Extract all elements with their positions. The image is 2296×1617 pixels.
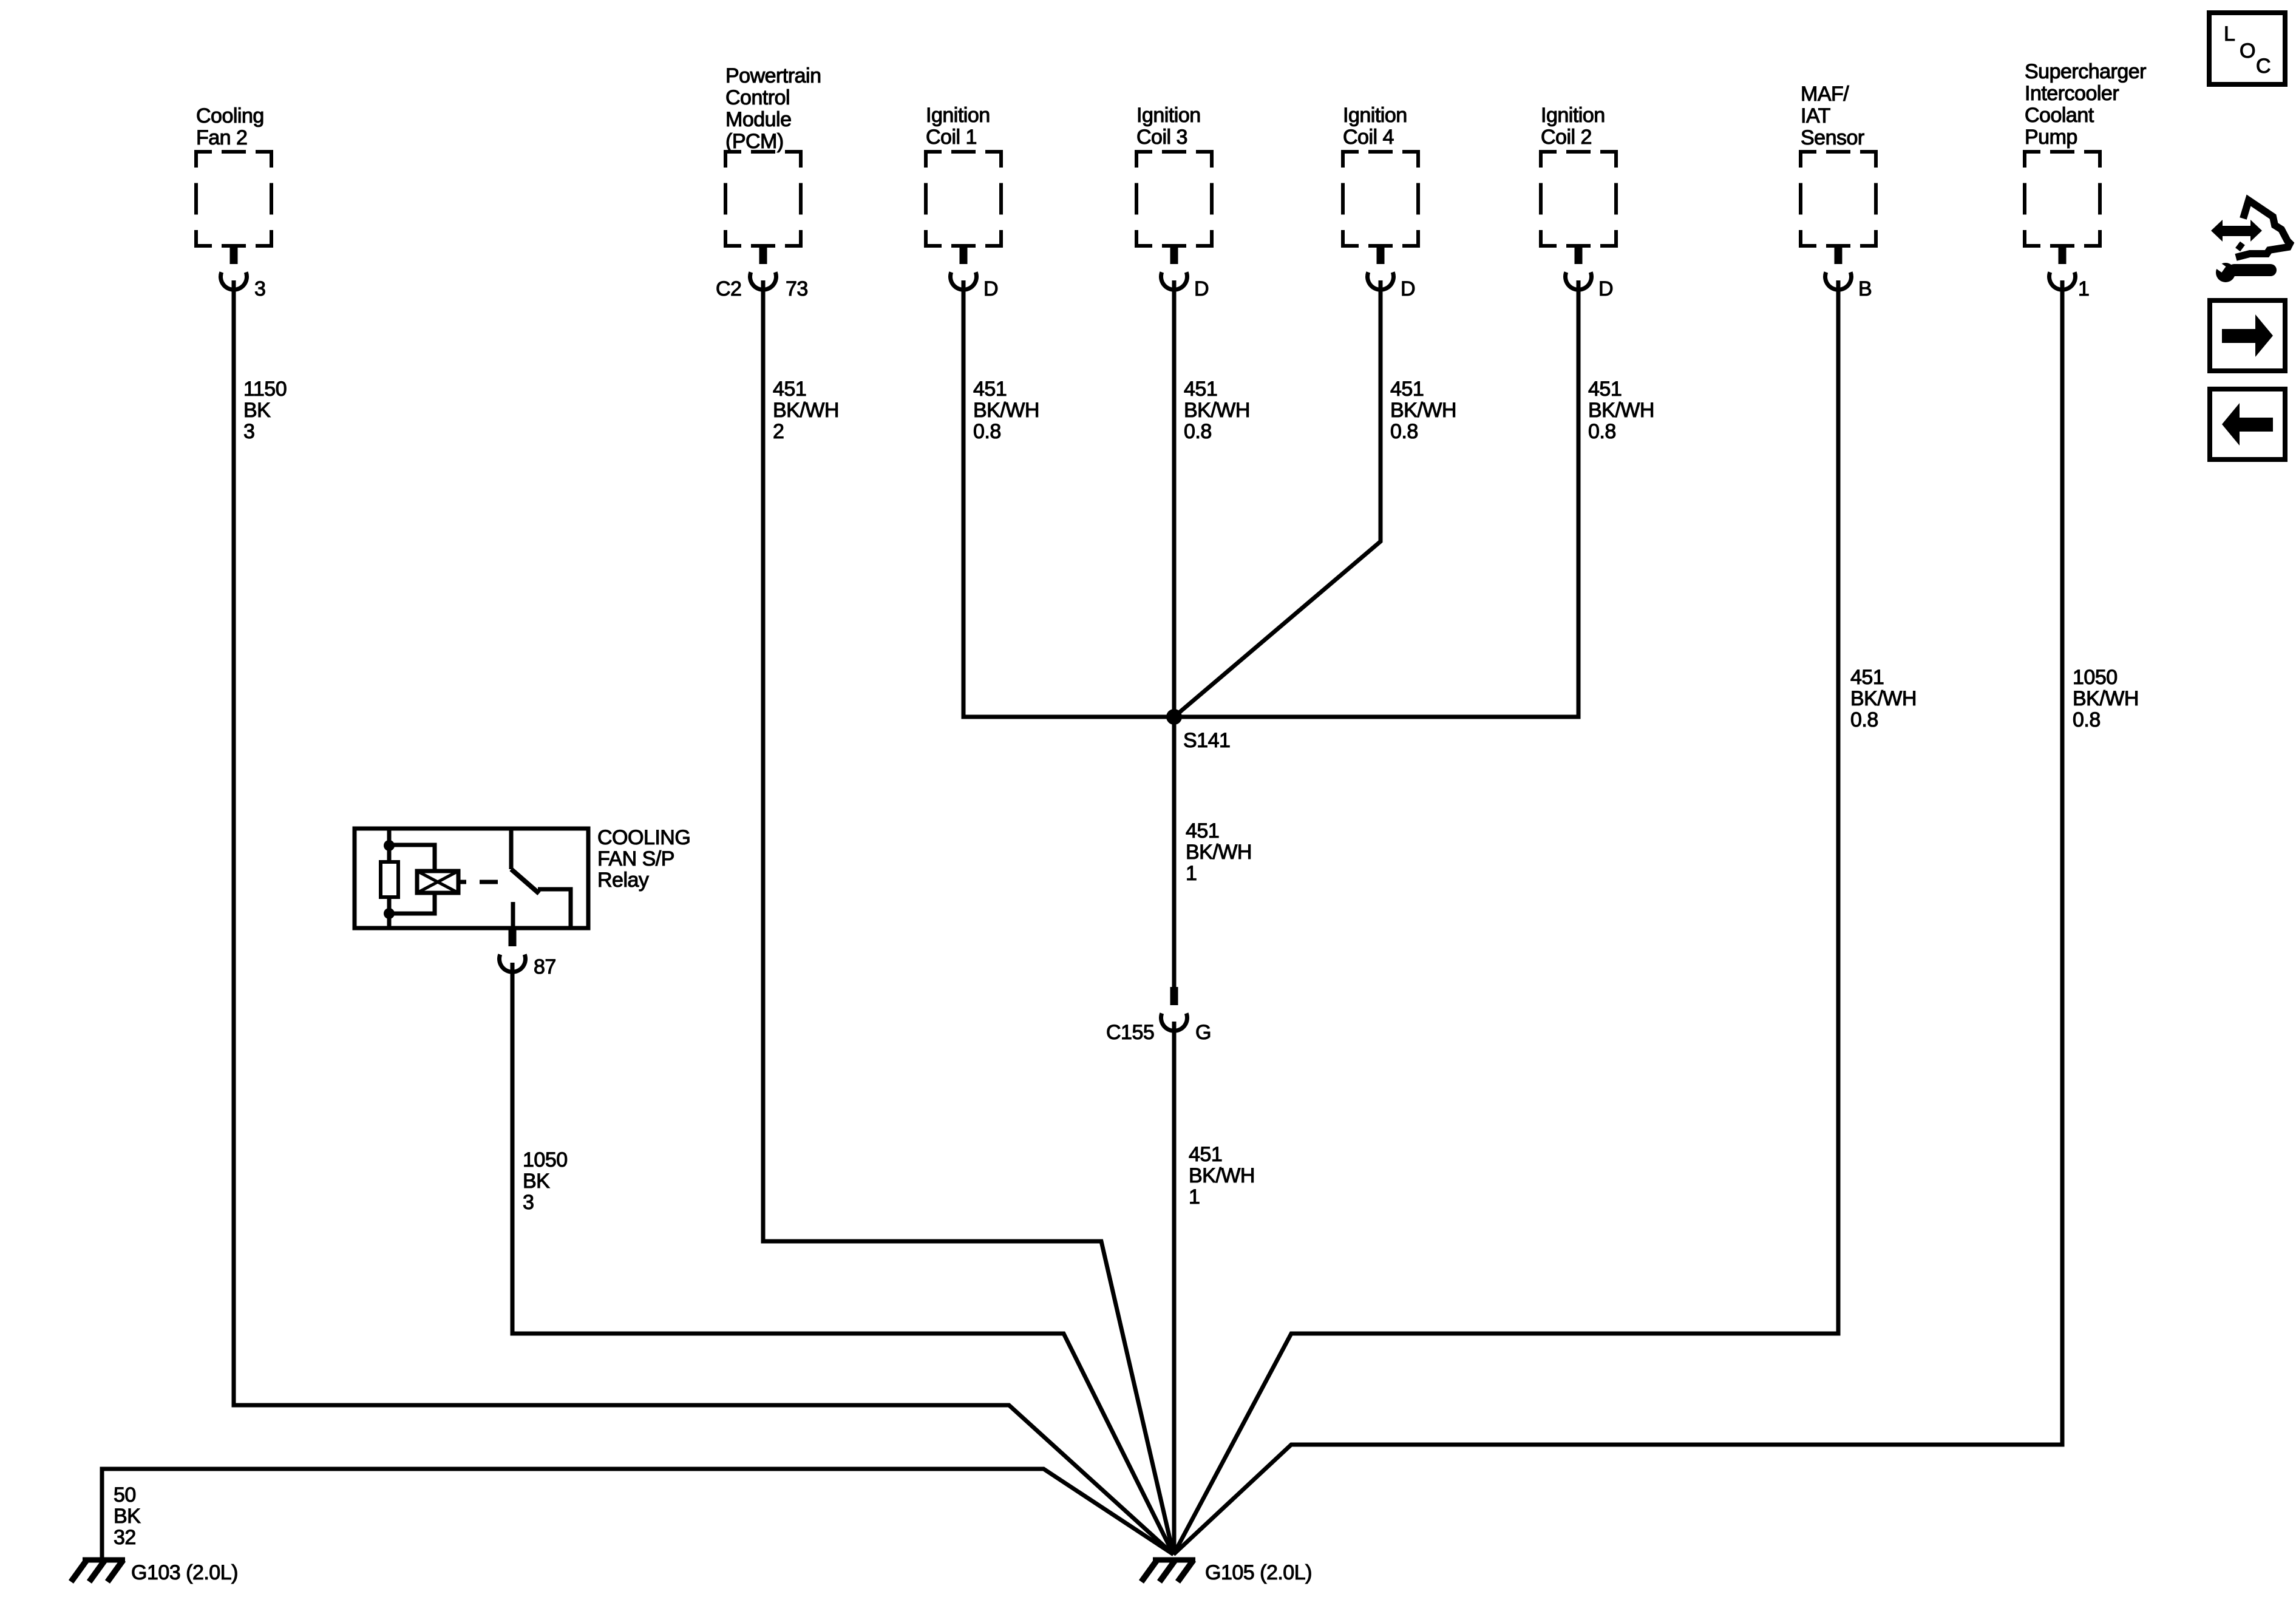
svg-text:BK/WH: BK/WH: [2073, 687, 2139, 710]
svg-text:87: 87: [534, 955, 556, 978]
svg-text:Pump: Pump: [2025, 126, 2077, 149]
component Ignition Coil 3 label: [1136, 104, 1201, 149]
pin label D: [1598, 277, 1613, 300]
connector pin D of Ignition Coil 2: [1566, 246, 1592, 290]
component Ignition Coil 3 (dashed box): [1136, 152, 1212, 246]
svg-text:Powertrain: Powertrain: [725, 64, 821, 87]
wire 451 BK/WH (Ignition Coil 3 through S141 to C155): [1172, 280, 1177, 987]
wire label 451 BK/WH 0.8 (coil 2): [1588, 378, 1654, 443]
relay output conductor to pin 87: [511, 902, 515, 928]
svg-text:D: D: [1401, 277, 1415, 300]
svg-text:BK/WH: BK/WH: [1189, 1164, 1255, 1187]
wire 451 BK/WH (Ignition Coil 1 to S141 bus): [963, 280, 1174, 717]
wire 1150 BK (Cooling Fan 2 pin 3 to G105): [234, 280, 1173, 1554]
svg-text:BK: BK: [523, 1170, 550, 1193]
svg-text:Intercooler: Intercooler: [2025, 82, 2119, 105]
wire 451 BK/WH (Ignition Coil 4 to S141): [1174, 280, 1381, 717]
relay switch contact path: [538, 889, 571, 928]
wire 50 BK (G103 to G105): [102, 1469, 1173, 1558]
svg-text:73: 73: [786, 277, 808, 300]
svg-text:BK: BK: [114, 1505, 141, 1528]
pin label D: [1401, 277, 1415, 300]
svg-text:1: 1: [1186, 862, 1197, 885]
pin label B: [1858, 277, 1872, 300]
wire 1050 BK/WH (Supercharger pump pin 1 to G105): [1173, 280, 2062, 1554]
wire label 451 BK/WH 0.8 (coil 4): [1390, 378, 1456, 443]
pin label G: [1195, 1021, 1211, 1044]
svg-text:G103 (2.0L): G103 (2.0L): [131, 1561, 238, 1584]
relay coil upper link wire: [389, 845, 435, 871]
component Supercharger Intercooler Coolant Pump label: [2025, 60, 2146, 149]
component Cooling Fan 2 (dashed box): [196, 152, 271, 246]
component MAF/IAT Sensor label: [1801, 83, 1864, 149]
svg-text:BK/WH: BK/WH: [1390, 399, 1456, 422]
svg-text:G105 (2.0L): G105 (2.0L): [1205, 1561, 1312, 1584]
svg-text:IAT: IAT: [1801, 104, 1830, 127]
svg-text:1150: 1150: [243, 378, 287, 401]
svg-text:Sensor: Sensor: [1801, 126, 1864, 149]
svg-text:1: 1: [1189, 1185, 1200, 1209]
relay COOLING FAN S/P Relay (outline box): [355, 829, 588, 928]
svg-text:BK/WH: BK/WH: [973, 399, 1039, 422]
component Ignition Coil 2 label: [1541, 104, 1605, 149]
svg-text:Cooling: Cooling: [196, 104, 264, 127]
relay suppression resistor: [381, 862, 398, 897]
svg-text:MAF/: MAF/: [1801, 83, 1849, 106]
pin label 73: [786, 277, 808, 300]
svg-text:0.8: 0.8: [973, 420, 1001, 443]
relay coil supply conductor: [387, 829, 392, 928]
wire label 1150 BK 3: [243, 378, 287, 443]
svg-text:Module: Module: [725, 108, 792, 131]
pin label D: [1194, 277, 1209, 300]
wire 451 BK/WH (PCM C2-73 to G105): [763, 280, 1173, 1554]
legend engine service icon (arrows, engine outline, wrench): [2211, 200, 2290, 282]
wire 451 BK/WH (C155 to G105): [1172, 1022, 1177, 1554]
svg-text:O: O: [2240, 39, 2255, 63]
component Ignition Coil 4 label: [1343, 104, 1407, 149]
wire label 451 BK/WH 0.8 (coil 3): [1184, 378, 1250, 443]
connector pin D of Ignition Coil 4: [1368, 246, 1394, 290]
wire label 451 BK/WH 1 (S141 to C155): [1186, 819, 1252, 885]
svg-text:D: D: [983, 277, 998, 300]
svg-text:Coil 2: Coil 2: [1541, 126, 1592, 149]
component MAF/IAT Sensor (dashed box): [1801, 152, 1876, 246]
svg-text:C2: C2: [716, 277, 741, 300]
svg-text:3: 3: [523, 1191, 534, 1214]
svg-text:BK/WH: BK/WH: [1184, 399, 1250, 422]
wire label 50 BK 32: [114, 1483, 141, 1549]
svg-text:COOLING: COOLING: [597, 826, 690, 849]
svg-text:FAN S/P: FAN S/P: [597, 847, 674, 870]
svg-text:S141: S141: [1183, 729, 1230, 752]
svg-text:451: 451: [1189, 1143, 1222, 1166]
svg-text:3: 3: [254, 277, 265, 300]
svg-text:451: 451: [1390, 378, 1424, 401]
ground label G103 (2.0L): [131, 1561, 238, 1584]
wire label 451 BK/WH 2: [773, 378, 839, 443]
svg-text:451: 451: [1184, 378, 1217, 401]
relay coil (X-box solenoid symbol): [417, 871, 458, 893]
svg-text:BK/WH: BK/WH: [1850, 687, 1917, 710]
legend LOC box: [2209, 13, 2285, 84]
svg-text:BK/WH: BK/WH: [773, 399, 839, 422]
legend back arrow box: [2210, 389, 2285, 459]
ground G105: [1141, 1560, 1195, 1582]
svg-text:Control: Control: [725, 86, 790, 109]
connector pin D of Ignition Coil 3: [1161, 246, 1187, 290]
svg-text:D: D: [1598, 277, 1613, 300]
relay junction dot upper: [384, 840, 395, 851]
svg-text:Supercharger: Supercharger: [2025, 60, 2146, 83]
svg-text:451: 451: [773, 378, 806, 401]
svg-text:Ignition: Ignition: [1136, 104, 1201, 127]
ground label G105 (2.0L): [1205, 1561, 1312, 1584]
relay switch arm: [511, 869, 539, 893]
connector pin 1 of Supercharger Intercooler Coolant Pump: [2050, 246, 2076, 290]
relay actuating linkage (dashed): [458, 880, 498, 884]
connector pin 87 of relay: [500, 928, 526, 972]
wire label 451 BK/WH 0.8 (MAF): [1850, 666, 1917, 731]
component Ignition Coil 1 (dashed box): [926, 152, 1001, 246]
pin label 87: [534, 955, 556, 978]
svg-text:3: 3: [243, 420, 254, 443]
relay coil lower link wire: [389, 893, 435, 914]
svg-text:C155: C155: [1106, 1021, 1154, 1044]
svg-text:G: G: [1195, 1021, 1211, 1044]
svg-text:Coolant: Coolant: [2025, 104, 2094, 127]
wire label 1050 BK/WH 0.8 (pump): [2073, 666, 2139, 731]
component Powertrain Control Module (PCM) label: [725, 64, 821, 153]
svg-text:(PCM): (PCM): [725, 130, 784, 153]
svg-text:Ignition: Ignition: [1541, 104, 1605, 127]
connector label C155: [1106, 1021, 1154, 1044]
svg-text:0.8: 0.8: [1184, 420, 1212, 443]
relay junction dot lower: [384, 908, 395, 919]
wire 451 BK/WH (Ignition Coil 2 to S141 bus): [1174, 280, 1578, 717]
pin label D: [983, 277, 998, 300]
svg-text:451: 451: [973, 378, 1007, 401]
component Ignition Coil 1 label: [926, 104, 990, 149]
relay label COOLING FAN S/P Relay: [597, 826, 690, 892]
svg-text:BK/WH: BK/WH: [1186, 841, 1252, 864]
svg-text:Relay: Relay: [597, 869, 649, 892]
svg-text:B: B: [1858, 277, 1872, 300]
svg-text:Coil 3: Coil 3: [1136, 126, 1187, 149]
connector pin B of MAF/IAT Sensor: [1826, 246, 1852, 290]
svg-text:1050: 1050: [2073, 666, 2118, 689]
wire label 451 BK/WH 0.8 (coil 1): [973, 378, 1039, 443]
svg-text:451: 451: [1588, 378, 1622, 401]
svg-text:0.8: 0.8: [1390, 420, 1418, 443]
svg-text:BK/WH: BK/WH: [1588, 399, 1654, 422]
svg-text:1: 1: [2078, 277, 2089, 300]
svg-text:32: 32: [114, 1526, 136, 1549]
svg-text:BK: BK: [243, 399, 271, 422]
component Ignition Coil 2 (dashed box): [1541, 152, 1616, 246]
wire 1050 BK (relay pin 87 to G105): [512, 963, 1173, 1554]
svg-text:2: 2: [773, 420, 784, 443]
svg-text:D: D: [1194, 277, 1209, 300]
svg-text:1050: 1050: [523, 1148, 568, 1171]
pin label 1: [2078, 277, 2089, 300]
component Powertrain Control Module (PCM) (dashed box): [725, 152, 801, 246]
splice S141 (junction dot): [1166, 709, 1182, 725]
wire label 451 BK/WH 1 (C155 to G105): [1189, 1143, 1255, 1209]
component Ignition Coil 4 (dashed box): [1343, 152, 1418, 246]
svg-text:451: 451: [1850, 666, 1884, 689]
component Cooling Fan 2 label: [196, 104, 264, 149]
connector pin 73 of Powertrain Control Module (PCM): [750, 246, 776, 290]
wire label 1050 BK 3: [523, 1148, 568, 1214]
svg-text:50: 50: [114, 1483, 136, 1507]
pin label 3: [254, 277, 265, 300]
svg-text:Ignition: Ignition: [1343, 104, 1407, 127]
svg-text:0.8: 0.8: [1850, 708, 1878, 731]
svg-text:0.8: 0.8: [2073, 708, 2101, 731]
svg-text:0.8: 0.8: [1588, 420, 1616, 443]
connector label C2: [716, 277, 741, 300]
component Supercharger Intercooler Coolant Pump (dashed box): [2025, 152, 2100, 246]
connector pin D of Ignition Coil 1: [951, 246, 977, 290]
ground G103: [71, 1560, 125, 1582]
svg-text:Coil 1: Coil 1: [926, 126, 977, 149]
svg-text:Ignition: Ignition: [926, 104, 990, 127]
node label S141: [1183, 729, 1230, 752]
relay switch common conductor: [509, 829, 514, 869]
connector pin 3 of Cooling Fan 2: [220, 246, 246, 290]
svg-text:451: 451: [1186, 819, 1219, 842]
connector C155 pin G: [1161, 987, 1187, 1031]
wire 451 BK/WH (MAF/IAT Sensor pin B to G105): [1173, 280, 1838, 1554]
svg-text:Fan 2: Fan 2: [196, 126, 247, 149]
svg-text:Coil 4: Coil 4: [1343, 126, 1394, 149]
legend forward arrow box: [2210, 300, 2285, 371]
svg-text:L: L: [2224, 22, 2235, 46]
svg-text:C: C: [2256, 55, 2271, 78]
